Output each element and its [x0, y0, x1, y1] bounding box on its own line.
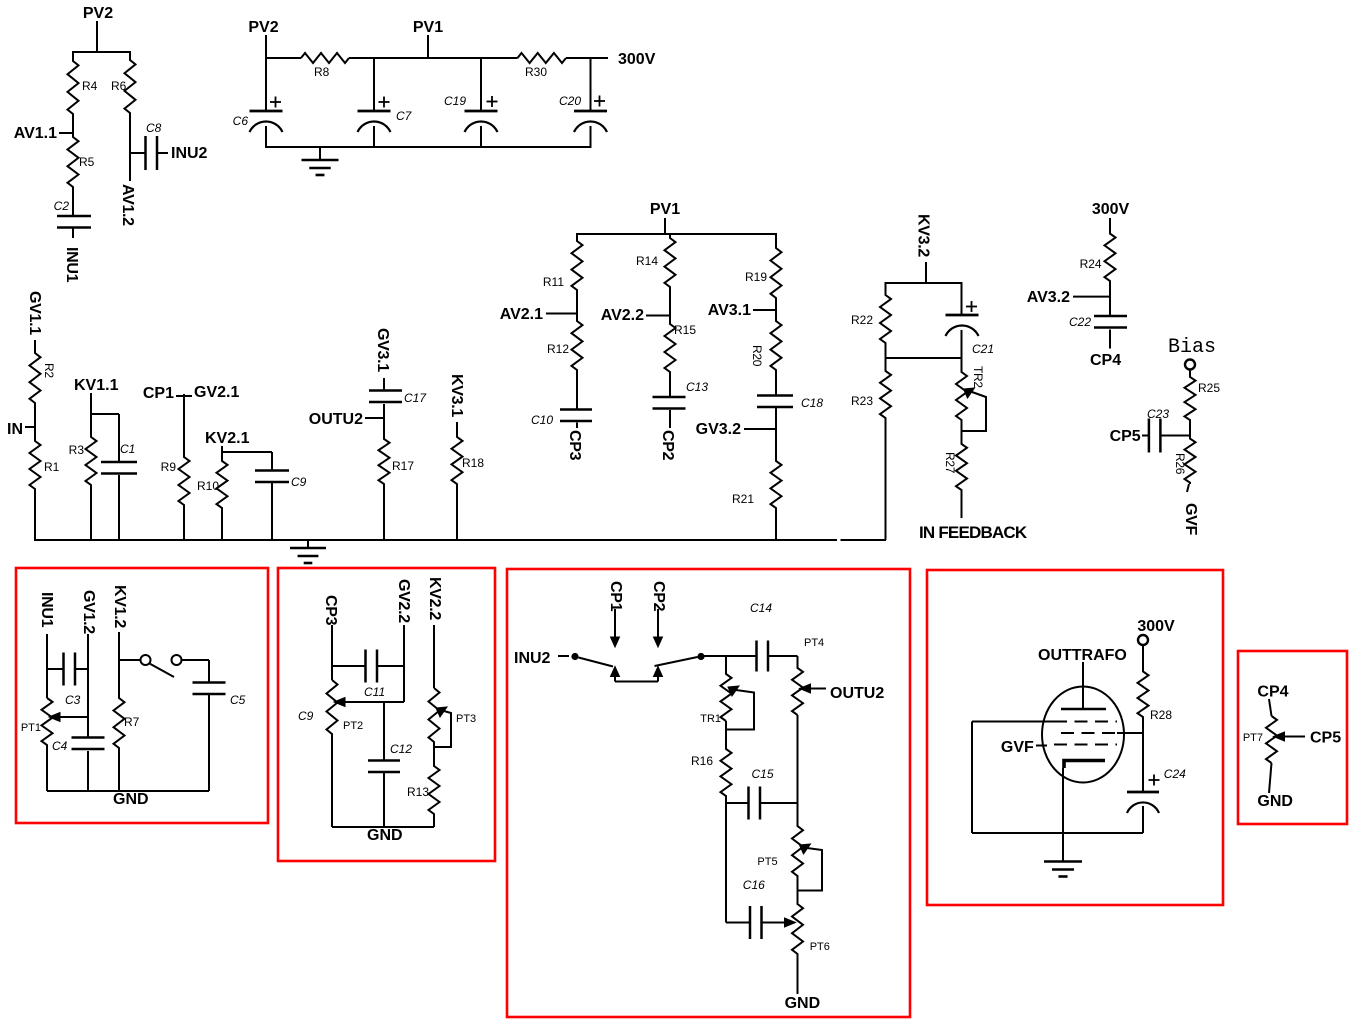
tube V1 grid 3: [1054, 744, 1117, 746]
svg-text:CP1: CP1: [143, 385, 174, 402]
wire PT4 to C15 node: [797, 715, 799, 803]
svg-text:CP3: CP3: [566, 430, 583, 461]
resistor R5: [68, 133, 79, 211]
svg-text:GV3.2: GV3.2: [696, 421, 741, 438]
svg-text:C6: C6: [233, 114, 249, 128]
svg-text:INU2: INU2: [514, 650, 551, 667]
svg-text:OUTU2: OUTU2: [830, 685, 884, 702]
svg-text:CP4: CP4: [1090, 352, 1121, 369]
capacitor C8: [144, 136, 147, 170]
svg-text:CP2: CP2: [650, 581, 667, 612]
wire C15 rail right: [760, 802, 798, 804]
svg-text:R20: R20: [750, 345, 764, 367]
svg-text:R23: R23: [851, 394, 873, 408]
svg-text:C9: C9: [298, 709, 314, 723]
ground (box4): [1062, 833, 1064, 862]
svg-text:R13: R13: [407, 785, 429, 799]
wire CP3 lead (box2): [331, 625, 333, 680]
svg-text:C15: C15: [752, 767, 774, 781]
enclosure box 2: [278, 568, 495, 861]
resistor R21: [771, 429, 782, 540]
wire C1 branch: [91, 413, 119, 415]
svg-text:PV1: PV1: [650, 201, 680, 218]
potentiometer PT3 wiper: [436, 707, 447, 717]
wire PT7 to GND (box5): [1269, 763, 1272, 793]
resistor R4: [68, 52, 79, 134]
wire C5 to gnd (box1): [208, 695, 210, 791]
switch SW1 throw: [172, 655, 182, 665]
resistor R1: [30, 427, 41, 540]
svg-text:KV3.2: KV3.2: [915, 214, 932, 257]
terminal 300V circle (box4): [1138, 635, 1148, 645]
svg-text:CP5: CP5: [1110, 428, 1141, 445]
wire C16 to PT6 wiper: [762, 922, 786, 924]
svg-text:PT5: PT5: [757, 856, 777, 868]
switch SEL bottom link: [615, 681, 658, 683]
potentiometer PT3: [429, 688, 440, 766]
svg-text:C10: C10: [531, 413, 553, 427]
svg-text:R19: R19: [745, 270, 767, 284]
svg-text:GND: GND: [367, 827, 403, 844]
svg-text:GVF: GVF: [1182, 503, 1199, 536]
svg-text:R12: R12: [547, 342, 569, 356]
resistor R8: [301, 53, 349, 63]
svg-text:C4: C4: [52, 739, 68, 753]
svg-text:R17: R17: [392, 459, 414, 473]
svg-text:C9: C9: [291, 475, 307, 489]
svg-text:C17: C17: [404, 391, 427, 405]
svg-text:CP1: CP1: [607, 581, 624, 612]
svg-text:GND: GND: [1257, 793, 1293, 810]
svg-text:OUTU2: OUTU2: [309, 411, 363, 428]
svg-text:TR1: TR1: [700, 713, 721, 725]
wire CP5 tick: [1142, 435, 1149, 437]
svg-text:C13: C13: [686, 380, 708, 394]
switch SEL contact left: [611, 667, 620, 677]
svg-text:CP2: CP2: [659, 430, 676, 461]
resistor R6: [125, 52, 136, 153]
svg-text:PT7: PT7: [1243, 732, 1263, 744]
wire KV1.2 lead (box1): [118, 632, 120, 660]
svg-text:PV2: PV2: [83, 5, 113, 22]
svg-text:C14: C14: [750, 601, 772, 615]
svg-text:CP4: CP4: [1257, 684, 1288, 701]
trimmer TR1: [721, 656, 732, 721]
svg-text:C23: C23: [1147, 407, 1169, 421]
enclosure box 1: [16, 568, 268, 823]
wire AV3.1 tick: [753, 309, 776, 311]
tube V1 cathode: [1064, 761, 1105, 769]
svg-text:R1: R1: [44, 460, 60, 474]
wire INU2 tick (box3): [558, 655, 569, 657]
wire CP2 arrow (box3): [657, 609, 659, 638]
resistor R27: [956, 431, 967, 518]
resistor R13: [429, 742, 440, 827]
svg-text:R4: R4: [82, 79, 98, 93]
wire cathode lead: [1062, 768, 1064, 862]
capacitor C22: [1094, 315, 1127, 318]
resistor R15: [665, 316, 676, 398]
svg-text:AV2.1: AV2.1: [500, 306, 543, 323]
capacitor C5: [193, 681, 226, 684]
wire PV2 stub: [96, 21, 98, 52]
svg-text:R5: R5: [79, 155, 95, 169]
svg-text:C12: C12: [390, 742, 412, 756]
svg-text:300V: 300V: [1092, 201, 1130, 218]
svg-text:INU2: INU2: [171, 145, 208, 162]
capacitor C19: [465, 110, 498, 113]
svg-text:AV3.1: AV3.1: [708, 302, 751, 319]
wire AV2.2 tick: [646, 315, 670, 317]
potentiometer PT5 wiper: [800, 844, 811, 854]
wire AV3.2 tick: [1073, 296, 1110, 298]
svg-text:C24: C24: [1164, 767, 1186, 781]
svg-text:GV2.1: GV2.1: [194, 384, 239, 401]
resistor R3: [86, 414, 97, 540]
svg-text:AV1.2: AV1.2: [119, 184, 136, 226]
wire CP2 lead: [669, 410, 671, 428]
potentiometer PT7 wiper: [1274, 732, 1285, 741]
svg-text:C8: C8: [146, 121, 162, 135]
tube V1 envelope: [1042, 687, 1124, 783]
resistor R30: [518, 53, 567, 63]
enclosure box 4: [927, 570, 1223, 905]
wire CP1 arrow (box3): [614, 609, 616, 638]
svg-text:C16: C16: [743, 878, 765, 892]
wire GVF tick: [1187, 484, 1189, 492]
wire grid loop left: [972, 721, 1054, 723]
wire CP3 lead: [576, 423, 578, 429]
capacitor C6: [250, 110, 283, 113]
wire IN tick: [25, 426, 35, 428]
wire gnd rail (box2): [332, 826, 434, 828]
resistor R18: [452, 422, 463, 540]
resistor R14: [665, 234, 676, 316]
wire PV1 stub (psu): [427, 35, 429, 58]
svg-text:PV2: PV2: [248, 19, 278, 36]
capacitor C11: [364, 650, 367, 683]
svg-text:R6: R6: [111, 79, 127, 93]
svg-text:PV1: PV1: [413, 19, 443, 36]
svg-text:TR2: TR2: [971, 366, 985, 388]
svg-text:PT6: PT6: [810, 941, 830, 953]
wire center top rail: [576, 233, 777, 235]
resistor R10: [217, 446, 228, 540]
capacitor C3: [62, 653, 65, 686]
potentiometer PT2 wiper: [334, 698, 345, 707]
capacitor C24: [1127, 791, 1159, 794]
wire C11 leads: [332, 665, 366, 667]
potentiometer PT5: [792, 803, 803, 891]
potentiometer PT4 wiper: [800, 684, 811, 693]
wire SW1 to C5: [182, 659, 209, 661]
svg-text:GV1.1: GV1.1: [26, 291, 43, 335]
wire PV2 stub (psu): [265, 35, 267, 58]
wire KV2.2 lead (box2): [433, 625, 435, 688]
svg-text:R30: R30: [525, 65, 547, 79]
potentiometer PT6: [792, 891, 803, 995]
svg-text:GVF: GVF: [1001, 739, 1034, 756]
wire GV3.2 tick: [744, 428, 776, 430]
potentiometer PT7: [1266, 716, 1277, 763]
capacitor C13: [653, 396, 686, 399]
capacitor C12: [368, 759, 400, 762]
capacitor C2: [57, 215, 91, 218]
wire GV2.2 lead (box2): [403, 625, 405, 702]
svg-text:300V: 300V: [618, 51, 656, 68]
potentiometer PT1 wiper: [49, 713, 60, 722]
svg-text:R25: R25: [1198, 381, 1220, 395]
wire CP1-GV2.1 tick: [176, 395, 192, 397]
wire C14 to PT4: [768, 655, 798, 657]
svg-text:C3: C3: [65, 693, 81, 707]
capacitor C15: [747, 787, 750, 820]
svg-text:R9: R9: [161, 460, 177, 474]
capacitor C7: [358, 110, 391, 113]
capacitor C20: [574, 110, 607, 113]
svg-text:R7: R7: [124, 715, 140, 729]
wire R28 to C24: [1142, 733, 1144, 792]
wire TR1 to R16: [725, 721, 727, 749]
svg-text:GND: GND: [785, 995, 821, 1012]
svg-text:R27: R27: [943, 452, 957, 474]
svg-text:R15: R15: [674, 323, 696, 337]
svg-text:INU1: INU1: [38, 592, 55, 628]
svg-text:PT3: PT3: [456, 713, 476, 725]
wire C9 to gnd: [271, 483, 273, 540]
junction dot (box3 right): [697, 653, 704, 660]
svg-text:INU1: INU1: [63, 247, 80, 283]
svg-text:GV3.1: GV3.1: [374, 328, 391, 372]
wire C4 to gnd (box1): [87, 751, 89, 791]
svg-text:C7: C7: [396, 109, 413, 123]
svg-text:R16: R16: [691, 754, 713, 768]
svg-text:C18: C18: [801, 396, 823, 410]
wire C3 leads: [47, 668, 64, 670]
wire R6 to AV1.2: [129, 153, 131, 181]
svg-text:Bias: Bias: [1168, 336, 1216, 359]
svg-text:GV1.2: GV1.2: [80, 590, 97, 634]
capacitor C10: [560, 408, 592, 411]
resistor R12: [572, 314, 583, 410]
resistor R16: [721, 730, 732, 804]
wire 300V lead: [1109, 218, 1111, 234]
capacitor C4: [72, 736, 105, 739]
wire PV1 stub (center): [664, 218, 666, 234]
resistor R20: [771, 310, 782, 395]
resistor R24: [1105, 218, 1116, 297]
wire C15 rail left: [725, 796, 727, 803]
svg-text:IN FEEDBACK: IN FEEDBACK: [919, 523, 1028, 542]
enclosure box 5: [1238, 651, 1347, 824]
resistor R2: [30, 340, 41, 427]
svg-text:PT2: PT2: [343, 720, 363, 732]
ground (psu): [319, 147, 321, 160]
svg-text:AV2.2: AV2.2: [601, 307, 644, 324]
svg-text:R21: R21: [732, 492, 754, 506]
svg-text:OUTTRAFO: OUTTRAFO: [1038, 647, 1127, 664]
svg-text:KV1.2: KV1.2: [111, 585, 128, 628]
resistor R7: [114, 660, 125, 791]
wire C23 node rail: [1160, 435, 1190, 437]
svg-text:R18: R18: [462, 456, 484, 470]
svg-text:R24: R24: [1080, 257, 1102, 271]
wire GVF tick (box4): [1036, 745, 1047, 747]
svg-text:CP5: CP5: [1310, 730, 1341, 747]
resistor R22: [880, 283, 891, 358]
wire GV3.1 lead: [383, 378, 385, 390]
svg-text:C19: C19: [444, 94, 466, 108]
resistor R26: [1185, 436, 1196, 485]
wire plate node rail: [1117, 732, 1143, 734]
svg-text:KV3.1: KV3.1: [448, 374, 465, 417]
wire CP4 lead (box5): [1269, 699, 1272, 716]
wire left branch down: [725, 803, 727, 923]
svg-text:C2: C2: [54, 199, 70, 213]
resistor R28: [1138, 645, 1149, 733]
svg-text:R28: R28: [1150, 708, 1172, 722]
wire OUTU2 tick: [365, 417, 384, 419]
svg-text:C20: C20: [559, 94, 581, 108]
resistor R19: [771, 234, 782, 310]
svg-text:R8: R8: [314, 65, 330, 79]
wire C16 rail left: [726, 922, 750, 924]
svg-text:KV2.1: KV2.1: [205, 430, 250, 447]
svg-text:KV2.2: KV2.2: [426, 577, 443, 620]
wire R4-R6 top rail: [72, 51, 131, 53]
tube V1 grid 2: [1061, 732, 1119, 734]
capacitor C14: [755, 641, 758, 672]
wire C9 branch: [222, 451, 272, 453]
svg-text:R11: R11: [543, 275, 564, 289]
ground (main): [307, 540, 309, 548]
wire psu bottom rail: [265, 146, 592, 148]
capacitor C1: [101, 461, 137, 464]
tube V1 anode lead: [1082, 662, 1084, 709]
switch SEL pole left: [579, 658, 614, 667]
capacitor C23: [1148, 419, 1151, 453]
wire gnd rail (box1): [47, 790, 209, 792]
wire AV1.1 tick: [59, 132, 73, 134]
wire C22 to CP4: [1109, 330, 1111, 349]
resistor R23: [880, 358, 891, 540]
svg-text:GV2.2: GV2.2: [395, 579, 412, 623]
capacitor C21: [946, 314, 979, 317]
tube V1 grid 1: [1054, 721, 1117, 723]
wire C12 branch: [383, 702, 385, 760]
capacitor C9: [255, 469, 289, 472]
svg-text:AV1.1: AV1.1: [14, 125, 57, 142]
trimmer TR2: [956, 358, 967, 431]
svg-text:C22: C22: [1069, 315, 1091, 329]
svg-text:AV3.2: AV3.2: [1027, 289, 1070, 306]
svg-text:IN: IN: [7, 421, 23, 438]
svg-text:300V: 300V: [1137, 618, 1175, 635]
resistor R25: [1185, 370, 1196, 436]
potentiometer PT1: [42, 698, 53, 791]
svg-text:C1: C1: [120, 442, 135, 456]
wire main ground bus: [34, 539, 837, 541]
wire C18 to R21: [775, 407, 777, 461]
svg-text:GND: GND: [113, 791, 149, 808]
resistor R17: [379, 404, 390, 540]
svg-text:R3: R3: [69, 443, 85, 457]
junction dot (box3 left): [571, 653, 578, 660]
capacitor C16: [749, 906, 752, 939]
trimmer TR1 wiper: [728, 686, 739, 696]
wire KV3.2 lead: [925, 262, 927, 283]
svg-text:CP3: CP3: [322, 595, 339, 626]
wire INU1 lead (box1): [46, 634, 48, 698]
switch SEL pole right: [655, 657, 698, 666]
switch SW1 lever: [150, 664, 175, 678]
resistor R9: [179, 394, 190, 540]
wire AV2.1 tick: [546, 313, 577, 315]
switch SEL contact right: [654, 667, 663, 677]
svg-text:C11: C11: [364, 685, 385, 699]
tube V1 anode: [1061, 708, 1106, 711]
svg-text:KV1.1: KV1.1: [74, 377, 119, 394]
wire gnd rail (box4): [972, 832, 1143, 834]
svg-text:C21: C21: [972, 342, 994, 356]
svg-text:R14: R14: [636, 254, 658, 268]
wire to C14/TR1: [704, 655, 757, 657]
enclosure box 3: [507, 569, 910, 1017]
svg-text:PT4: PT4: [804, 637, 824, 649]
wire GV1.2 lead (box1): [87, 634, 89, 738]
wire KV3.2 top rail: [885, 282, 963, 284]
svg-text:R2: R2: [42, 363, 56, 378]
wire R22-R23 node rail: [886, 357, 962, 359]
wire R24 to C22: [1109, 281, 1111, 316]
potentiometer PT2: [327, 680, 338, 827]
wire C1 to gnd: [118, 475, 120, 540]
trimmer TR2 wiper: [964, 388, 975, 398]
capacitor C17: [369, 389, 402, 392]
svg-text:R22: R22: [851, 313, 873, 327]
terminal Bias circle: [1185, 360, 1195, 370]
wire C24 to gnd rail: [1142, 806, 1144, 833]
switch SW1 pole: [141, 655, 151, 665]
wire KV1.1 lead: [90, 393, 92, 437]
wire psu top rail: [266, 57, 301, 59]
svg-text:PT1: PT1: [21, 722, 41, 734]
potentiometer PT4: [792, 656, 803, 715]
resistor R11: [572, 234, 583, 314]
switch SW1 wire: [119, 659, 140, 661]
svg-text:C5: C5: [230, 693, 246, 707]
svg-text:R26: R26: [1173, 453, 1187, 475]
svg-text:R10: R10: [197, 479, 219, 493]
capacitor C18: [757, 394, 793, 397]
wire C12 to gnd (box2): [383, 773, 385, 827]
